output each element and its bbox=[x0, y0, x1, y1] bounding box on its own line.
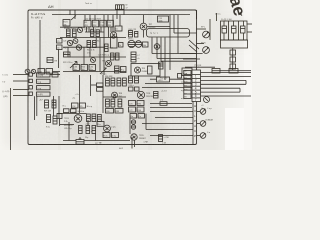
svg-text:C52: C52 bbox=[72, 106, 75, 108]
wire drop x59 bbox=[58, 96, 60, 118]
wire M1 out bbox=[247, 23, 252, 25]
connector wire out 5 bbox=[201, 87, 241, 89]
capacitor C90 bbox=[159, 135, 163, 142]
relay contact K2 bbox=[232, 26, 237, 33]
svg-text:R34: R34 bbox=[93, 25, 96, 27]
svg-text:C25·R18·a·p: C25·R18·a·p bbox=[98, 55, 109, 57]
svg-text:33k: 33k bbox=[64, 24, 67, 26]
svg-text:R2·1k C2·a: R2·1k C2·a bbox=[64, 28, 75, 30]
transistor TR11 bbox=[137, 91, 144, 98]
wire module to right bbox=[196, 10, 198, 19]
wire vertical right x240 bbox=[239, 88, 241, 92]
wire vertical x103 bbox=[102, 75, 104, 113]
connector divider 6 bbox=[192, 93, 201, 95]
comb tick c2 bbox=[88, 27, 90, 32]
resistor R41 bbox=[129, 31, 133, 38]
lamp PL1 bbox=[200, 109, 206, 115]
wire vertical drop x95 bbox=[94, 15, 96, 20]
resistor R12 bbox=[93, 41, 97, 48]
wire vertical x96 bbox=[95, 38, 97, 48]
output stage box bbox=[131, 64, 160, 77]
svg-text:·a·NE: ·a·NE bbox=[143, 142, 149, 144]
wire bus right y87 bbox=[142, 87, 192, 89]
box H4 bbox=[137, 107, 144, 112]
wire tick x75 bbox=[74, 10, 76, 19]
box H1 bbox=[129, 101, 136, 106]
svg-text:C·a·p: C·a·p bbox=[207, 108, 212, 110]
svg-text:(T)·C(18: (T)·C(18 bbox=[194, 65, 201, 67]
box H3 bbox=[129, 107, 136, 112]
svg-text:R12 4.7k: R12 4.7k bbox=[87, 50, 95, 52]
svg-text:R13: R13 bbox=[97, 41, 100, 43]
svg-text:KL·ab·P·TU/a: KL·ab·P·TU/a bbox=[31, 14, 46, 16]
svg-text:m·p: m·p bbox=[184, 89, 187, 91]
resistor R102 bbox=[79, 126, 83, 134]
module box M1 bbox=[221, 21, 248, 40]
wire vertical x84 bbox=[83, 47, 85, 64]
box G8 bbox=[64, 109, 70, 113]
wire diag 2 bbox=[189, 45, 197, 52]
svg-text:+C82: +C82 bbox=[85, 124, 90, 126]
resistor R16b bbox=[116, 53, 120, 60]
svg-text:La·(·R): La·(·R) bbox=[37, 75, 43, 77]
lamp SP-L bbox=[203, 31, 210, 38]
svg-text:C16: C16 bbox=[108, 22, 111, 24]
IF can L8 bbox=[111, 37, 118, 48]
transistor TR5 bbox=[106, 61, 112, 67]
svg-text:a·p··NE: a·p··NE bbox=[95, 143, 102, 145]
svg-text:ta·m·a: ta·m·a bbox=[215, 13, 221, 16]
wire vertical x79 bbox=[79, 75, 81, 113]
svg-text:TR13: TR13 bbox=[64, 118, 69, 120]
wire right edge bbox=[238, 70, 251, 72]
svg-text:C85·25µ: C85·25µ bbox=[64, 128, 72, 130]
pin label box column bbox=[184, 71, 191, 99]
box small F1 bbox=[148, 66, 153, 74]
wire vertical x165 bbox=[164, 38, 166, 81]
transistor TR12 bbox=[204, 97, 210, 103]
wire long left drop bbox=[10, 88, 12, 150]
box J9 bbox=[112, 133, 119, 138]
wire lampR bbox=[197, 43, 205, 45]
box small F2 bbox=[178, 74, 182, 79]
coil box L6 bbox=[115, 26, 122, 31]
svg-text:A: A bbox=[194, 124, 196, 128]
wire sw out bbox=[50, 74, 60, 76]
connector wire out 2 bbox=[201, 76, 252, 78]
wire y103 bbox=[150, 103, 192, 105]
wire y113 bbox=[57, 113, 87, 115]
box G1 bbox=[97, 83, 104, 87]
comb tick c5 bbox=[108, 27, 110, 38]
bus step 1 bbox=[152, 53, 197, 55]
transistor TR2 bbox=[67, 40, 72, 45]
svg-text:L7: L7 bbox=[138, 55, 140, 57]
svg-text:TR8: TR8 bbox=[119, 93, 123, 95]
wire bus right y79 bbox=[150, 78, 157, 80]
switch box SW3 bbox=[37, 86, 51, 90]
svg-text:Fx ·∆/40 ·d: Fx ·∆/40 ·d bbox=[31, 17, 43, 20]
svg-text:R36: R36 bbox=[100, 25, 103, 27]
wire y57 bbox=[70, 56, 126, 58]
box K6 bbox=[138, 114, 145, 119]
pin wire 2 bbox=[228, 21, 230, 40]
photocopy streaks bbox=[58, 0, 152, 150]
wire diag 1 bbox=[189, 40, 199, 49]
svg-text:(·(–L·(R): (·(–L·(R) bbox=[2, 91, 10, 93]
capacitor C1 diagonal bbox=[71, 16, 76, 21]
svg-text:30·a·p: 30·a·p bbox=[87, 106, 92, 108]
wire vertical x100 bbox=[99, 38, 101, 72]
connector divider 4 bbox=[192, 85, 201, 87]
resistor R2 bbox=[67, 29, 71, 37]
svg-text:a·p: a·p bbox=[184, 77, 187, 79]
capacitor C36 arrow bbox=[100, 68, 107, 74]
wire top inner bus bbox=[52, 14, 190, 16]
comb tick c4 bbox=[100, 27, 102, 32]
box C40 bbox=[182, 68, 192, 76]
capacitor C31 arrow bbox=[70, 62, 77, 69]
svg-text:C70: C70 bbox=[129, 104, 132, 106]
resistor R4 bbox=[91, 30, 94, 37]
wire stack vertical bbox=[232, 48, 234, 70]
box SW aux bbox=[52, 73, 58, 77]
wire vertical x178 bbox=[177, 15, 179, 54]
box G9 bbox=[71, 109, 77, 113]
wire segment y33 bbox=[174, 32, 197, 34]
svg-text:ch: ch bbox=[138, 58, 140, 60]
svg-text:a·p: a·p bbox=[184, 93, 187, 95]
box G2 bbox=[97, 88, 104, 92]
svg-text:560: 560 bbox=[82, 69, 85, 71]
wire bus right y79b bbox=[170, 78, 193, 80]
svg-text:R80 R82: R80 R82 bbox=[105, 76, 112, 78]
ground sym 2 bbox=[95, 134, 97, 141]
svg-text:500k: 500k bbox=[159, 21, 163, 23]
connector wire out 3 bbox=[201, 79, 247, 81]
wire drop from T1 bbox=[116, 9, 118, 19]
wire vertical x90 low bbox=[90, 75, 92, 96]
svg-text:L·48: L·48 bbox=[162, 143, 166, 145]
paper background bbox=[0, 0, 252, 150]
transistor TR9 bbox=[135, 67, 141, 73]
bus step riser 1 bbox=[151, 38, 153, 54]
wire input 1 bbox=[13, 74, 29, 76]
resistor R8 bbox=[47, 58, 53, 63]
capacitor C6 bbox=[57, 45, 63, 50]
wire row y37 bbox=[60, 37, 126, 39]
capacitor C83 bbox=[92, 126, 96, 134]
box TR5 load2 bbox=[121, 67, 127, 73]
svg-text:P: P bbox=[194, 119, 196, 123]
pin wire 1 bbox=[223, 21, 225, 40]
svg-text:/··/–OL: /··/–OL bbox=[2, 75, 8, 77]
transistor TR15 bbox=[131, 134, 137, 140]
connector divider 2 bbox=[192, 77, 201, 79]
switch box SW1 bbox=[37, 73, 51, 77]
wire M1 out2 bbox=[247, 31, 252, 33]
wire vertical x68 bbox=[67, 47, 69, 57]
wire lampL bbox=[197, 28, 207, 30]
capacitor C5 bbox=[57, 39, 63, 44]
transformer T1 on top bus bbox=[116, 5, 128, 10]
svg-text:m·p: m·p bbox=[184, 81, 187, 83]
ground sym 1 bbox=[79, 137, 82, 141]
wire tick x108 bbox=[107, 15, 109, 21]
diode stack D11 bbox=[131, 125, 135, 129]
box G7 bbox=[80, 103, 86, 108]
shield box rounded bbox=[147, 29, 190, 38]
resistor R11 bbox=[87, 41, 91, 48]
svg-text:TR5: TR5 bbox=[102, 61, 106, 63]
lamp SP-R bbox=[203, 47, 210, 54]
capacitor C82 bbox=[86, 126, 90, 134]
svg-text:(T)·BA1R: (T)·BA1R bbox=[205, 119, 214, 122]
wire TR7 base bbox=[143, 15, 145, 24]
jack J1 bbox=[29, 73, 32, 76]
resistor J6b bbox=[98, 115, 102, 122]
box J8 bbox=[103, 133, 110, 138]
svg-text:P: P bbox=[194, 134, 196, 138]
svg-text:TR9: TR9 bbox=[142, 68, 146, 70]
connector divider 5 bbox=[192, 89, 201, 91]
jack J4 bbox=[29, 92, 32, 95]
wire tick x90 bbox=[89, 15, 91, 21]
svg-text:R101·470: R101·470 bbox=[64, 125, 72, 127]
wire input 3 bbox=[13, 89, 29, 91]
svg-text:4H·2: 4H·2 bbox=[119, 148, 123, 150]
box cluster B2 bbox=[81, 65, 88, 72]
wire vertical x130b bbox=[129, 118, 131, 134]
resistor R61 bbox=[229, 69, 238, 74]
transistor TR7 bbox=[140, 23, 147, 30]
wire drop x69 bbox=[68, 122, 70, 141]
wire TR7 collector bbox=[147, 26, 170, 28]
wire y124 stub bbox=[60, 124, 74, 126]
box VR label bbox=[143, 42, 149, 47]
connector divider 1 bbox=[192, 74, 201, 76]
diode D1 bbox=[31, 69, 35, 73]
wire pair down 2 bbox=[36, 96, 38, 116]
box cluster B1 bbox=[73, 65, 80, 72]
capacitor C15 box bbox=[158, 16, 169, 23]
resistor R86 bbox=[118, 99, 122, 107]
svg-text:2SD88: 2SD88 bbox=[142, 71, 148, 73]
feeder wire y123 bbox=[142, 123, 193, 125]
wire tick x70 bbox=[69, 10, 71, 15]
svg-text:R14: R14 bbox=[110, 48, 113, 50]
resistor R3 bbox=[73, 29, 77, 37]
svg-text:ΔH: ΔH bbox=[48, 4, 54, 9]
box G12 bbox=[115, 109, 123, 114]
relay contact K1 bbox=[222, 26, 227, 33]
jack J3 bbox=[29, 86, 32, 89]
IF can box L5 bbox=[107, 20, 113, 27]
transistor TR4 bbox=[76, 45, 81, 50]
bus step riser 3 bbox=[160, 38, 162, 62]
box H2 bbox=[137, 101, 144, 106]
potentiometer VR2 bbox=[135, 41, 142, 48]
resistor J6 bbox=[92, 114, 96, 122]
resistor R83 bbox=[123, 78, 127, 86]
IF can box L2 bbox=[84, 20, 91, 27]
wire y73 bbox=[220, 70, 229, 72]
svg-text:R71·1M: R71·1M bbox=[44, 111, 51, 113]
photocopy smudge blobs bbox=[2, 16, 250, 145]
svg-text:La·(R·): La·(R·) bbox=[37, 94, 43, 96]
transistor TR4b bbox=[91, 58, 96, 63]
box R91c bbox=[135, 87, 140, 91]
grain overlay bbox=[27, 9, 198, 145]
svg-text:C11·C13·C15·R33: C11·C13·C15·R33 bbox=[85, 19, 101, 21]
wire horizontal y97 bbox=[103, 96, 126, 98]
bus step riser 2 bbox=[156, 38, 158, 59]
diode stack D10 bbox=[131, 120, 135, 124]
svg-text:TR15: TR15 bbox=[139, 135, 144, 137]
wire lamp2 bbox=[197, 123, 200, 125]
svg-text:17: 17 bbox=[126, 8, 128, 10]
connector wire out 1 bbox=[201, 72, 252, 74]
svg-text:TR11: TR11 bbox=[146, 93, 150, 95]
feeder wire y129 bbox=[146, 129, 193, 131]
IF can box L3 bbox=[92, 20, 98, 27]
board frame bbox=[28, 10, 197, 145]
svg-text:7: 7 bbox=[195, 98, 197, 102]
svg-text:C15: C15 bbox=[159, 18, 162, 20]
wire y71 stub bbox=[53, 71, 61, 73]
wire module stub2 bbox=[209, 19, 211, 40]
svg-text:+1.4·d: +1.4·d bbox=[161, 91, 166, 93]
transistor TR2b bbox=[73, 39, 78, 44]
wire vertical right x246 bbox=[245, 80, 247, 84]
comb tick c6 bbox=[110, 27, 112, 32]
resistor R84 bbox=[106, 99, 110, 107]
svg-text:C6: C6 bbox=[57, 48, 59, 50]
svg-text:Tech ·ur: Tech ·ur bbox=[85, 2, 92, 5]
svg-text:L6: L6 bbox=[116, 29, 118, 31]
wire cross below frame 2 bbox=[134, 140, 136, 147]
switch box SW4 bbox=[37, 92, 51, 96]
resistor R97 inline bbox=[160, 102, 167, 106]
resistor R50 bbox=[159, 62, 164, 69]
svg-text:C5: C5 bbox=[57, 41, 59, 43]
svg-text:R95: R95 bbox=[138, 104, 141, 106]
svg-text:D·5: D·5 bbox=[160, 100, 163, 102]
resistor R90 bbox=[129, 76, 133, 83]
connector divider 7 bbox=[192, 97, 201, 99]
svg-text:H: H bbox=[194, 104, 196, 108]
svg-text:+42V: +42V bbox=[158, 80, 164, 82]
transistor TR7b bbox=[154, 44, 160, 50]
resistor R14 bbox=[105, 44, 109, 52]
connector divider 3 bbox=[192, 81, 201, 83]
lamp PL3 bbox=[200, 133, 206, 139]
wire lamp3 bbox=[197, 135, 200, 137]
transistor TR1 bbox=[77, 27, 82, 32]
wire input 4 bbox=[13, 95, 29, 97]
wire y67 bbox=[185, 66, 215, 68]
svg-text:455: 455 bbox=[85, 25, 88, 27]
svg-text:1µ 1µ ·a: 1µ 1µ ·a bbox=[150, 33, 159, 35]
wire y107 bbox=[150, 107, 192, 109]
wire y47 bbox=[63, 46, 104, 48]
wire vertical x170 bbox=[169, 15, 171, 70]
transistor TR13 bbox=[74, 115, 82, 123]
svg-text:R8: R8 bbox=[55, 61, 57, 63]
resistor R93 bbox=[154, 92, 159, 99]
svg-text:R1·K: R1·K bbox=[64, 22, 69, 24]
transistor TR3 bbox=[110, 32, 116, 38]
svg-text:+C·: +C· bbox=[201, 105, 204, 107]
switch box SW2 bbox=[37, 79, 51, 83]
svg-text:2.2k: 2.2k bbox=[64, 121, 68, 123]
box R16 bbox=[119, 43, 124, 48]
box K5 bbox=[130, 114, 137, 119]
bus step 2 bbox=[157, 58, 197, 60]
resistor R91 bbox=[135, 76, 139, 83]
wire vertical drop x113 bbox=[112, 15, 114, 32]
wire input 2 bbox=[13, 80, 29, 82]
svg-text:TR2: TR2 bbox=[63, 48, 67, 50]
resistor R60 bbox=[212, 69, 220, 74]
bus step 3 bbox=[161, 60, 197, 62]
box G11 bbox=[106, 109, 114, 114]
svg-text:2SD218: 2SD218 bbox=[146, 96, 153, 98]
transistor TR6 bbox=[25, 69, 30, 74]
box on bottom frame bbox=[76, 140, 84, 145]
wire TR7 emitter bbox=[143, 30, 145, 38]
resistor R81 bbox=[111, 78, 115, 86]
box G6 bbox=[72, 103, 79, 108]
svg-text:R22·C31·a: R22·C31·a bbox=[63, 62, 73, 64]
svg-text:R41 C23: R41 C23 bbox=[129, 29, 136, 31]
svg-text:SP·L: SP·L bbox=[201, 27, 205, 29]
resistor J5 bbox=[87, 114, 91, 122]
box +42V bbox=[157, 77, 170, 82]
svg-text:a·p: a·p bbox=[184, 85, 187, 87]
wire vertical drop x85 bbox=[84, 15, 86, 20]
box R90c bbox=[129, 87, 134, 91]
svg-text:C14: C14 bbox=[100, 22, 103, 24]
pin wire 5 bbox=[243, 21, 245, 40]
box E2 bbox=[46, 69, 53, 75]
svg-text:C60: C60 bbox=[106, 111, 109, 113]
box cluster B3 bbox=[89, 65, 96, 72]
resistor stack right: R80 bbox=[106, 78, 110, 86]
svg-text:/·a·g: /·a·g bbox=[37, 88, 41, 90]
wire vertical x146 bbox=[145, 114, 147, 130]
wire lamp1 bbox=[197, 111, 200, 113]
svg-text:R38: R38 bbox=[108, 25, 111, 27]
comb tick c1 bbox=[86, 27, 88, 32]
coil L7 bbox=[131, 52, 136, 62]
feeder wire y117 bbox=[155, 117, 193, 119]
svg-text:1k: 1k bbox=[119, 45, 121, 47]
potentiometer VR1 bbox=[128, 40, 135, 47]
jack J2 bbox=[29, 79, 32, 82]
connector wire out 7 bbox=[201, 95, 252, 97]
wire drop J7 bbox=[59, 119, 61, 127]
white corner bottom-right bbox=[225, 108, 252, 150]
resistor R72 bbox=[47, 115, 51, 123]
relay contact K3 bbox=[241, 26, 246, 33]
wire y53 bbox=[180, 53, 203, 55]
resistor R82 bbox=[117, 78, 121, 86]
resistor R15 bbox=[111, 53, 115, 60]
svg-text:a·p·1 ·a·p·2 ·k: a·p·1 ·a·p·2 ·k bbox=[84, 28, 96, 30]
transistor TR14 bbox=[104, 125, 111, 132]
wire vertical drop x104 bbox=[103, 15, 105, 75]
